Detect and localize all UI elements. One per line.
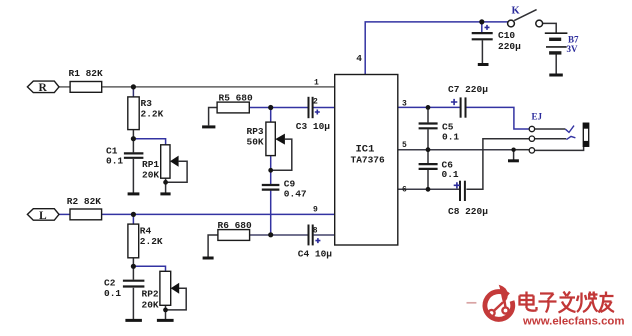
svg-text:C3 10μ: C3 10μ bbox=[296, 121, 331, 132]
svg-text:R6 680: R6 680 bbox=[218, 220, 253, 231]
svg-text:9: 9 bbox=[313, 206, 318, 215]
svg-text:C8 220μ: C8 220μ bbox=[448, 206, 488, 217]
svg-text:R2 82K: R2 82K bbox=[67, 196, 102, 207]
svg-text:R4: R4 bbox=[140, 226, 152, 237]
svg-text:0.1: 0.1 bbox=[104, 288, 121, 299]
svg-text:3: 3 bbox=[402, 100, 407, 109]
svg-text:5: 5 bbox=[402, 141, 407, 150]
svg-text:RP3: RP3 bbox=[247, 126, 264, 137]
svg-text:220μ: 220μ bbox=[498, 41, 521, 52]
svg-text:3V: 3V bbox=[567, 44, 579, 54]
svg-text:R5 680: R5 680 bbox=[219, 93, 254, 104]
svg-text:0.47: 0.47 bbox=[284, 189, 307, 200]
svg-text:0.1: 0.1 bbox=[442, 169, 459, 180]
svg-text:2.2K: 2.2K bbox=[141, 109, 164, 120]
svg-text:2: 2 bbox=[313, 98, 318, 107]
svg-text:20K: 20K bbox=[142, 300, 159, 311]
svg-text:C4 10μ: C4 10μ bbox=[298, 249, 333, 260]
svg-text:R: R bbox=[39, 82, 48, 94]
svg-text:B7: B7 bbox=[568, 35, 579, 45]
svg-text:C10: C10 bbox=[498, 30, 515, 41]
svg-text:4: 4 bbox=[356, 53, 362, 64]
svg-text:2.2K: 2.2K bbox=[140, 236, 163, 247]
svg-text:C7 220μ: C7 220μ bbox=[448, 84, 488, 95]
svg-text:0.1: 0.1 bbox=[442, 132, 459, 143]
svg-text:RP2: RP2 bbox=[142, 289, 159, 300]
svg-text:C2: C2 bbox=[104, 278, 116, 289]
svg-text:50K: 50K bbox=[247, 137, 264, 148]
svg-text:K: K bbox=[512, 6, 521, 17]
svg-text:6: 6 bbox=[402, 186, 407, 195]
svg-text:L: L bbox=[39, 210, 47, 222]
svg-text:8: 8 bbox=[313, 227, 318, 236]
svg-text:R1 82K: R1 82K bbox=[69, 68, 104, 79]
svg-text:TA7376: TA7376 bbox=[351, 155, 386, 166]
svg-text:20K: 20K bbox=[142, 170, 159, 181]
svg-text:www.elecfans.com: www.elecfans.com bbox=[522, 316, 625, 328]
svg-text:R3: R3 bbox=[141, 98, 153, 109]
svg-text:RP1: RP1 bbox=[142, 159, 159, 170]
svg-text:EJ: EJ bbox=[532, 112, 543, 122]
svg-text:0.1: 0.1 bbox=[106, 156, 123, 167]
svg-text:1: 1 bbox=[314, 78, 319, 87]
